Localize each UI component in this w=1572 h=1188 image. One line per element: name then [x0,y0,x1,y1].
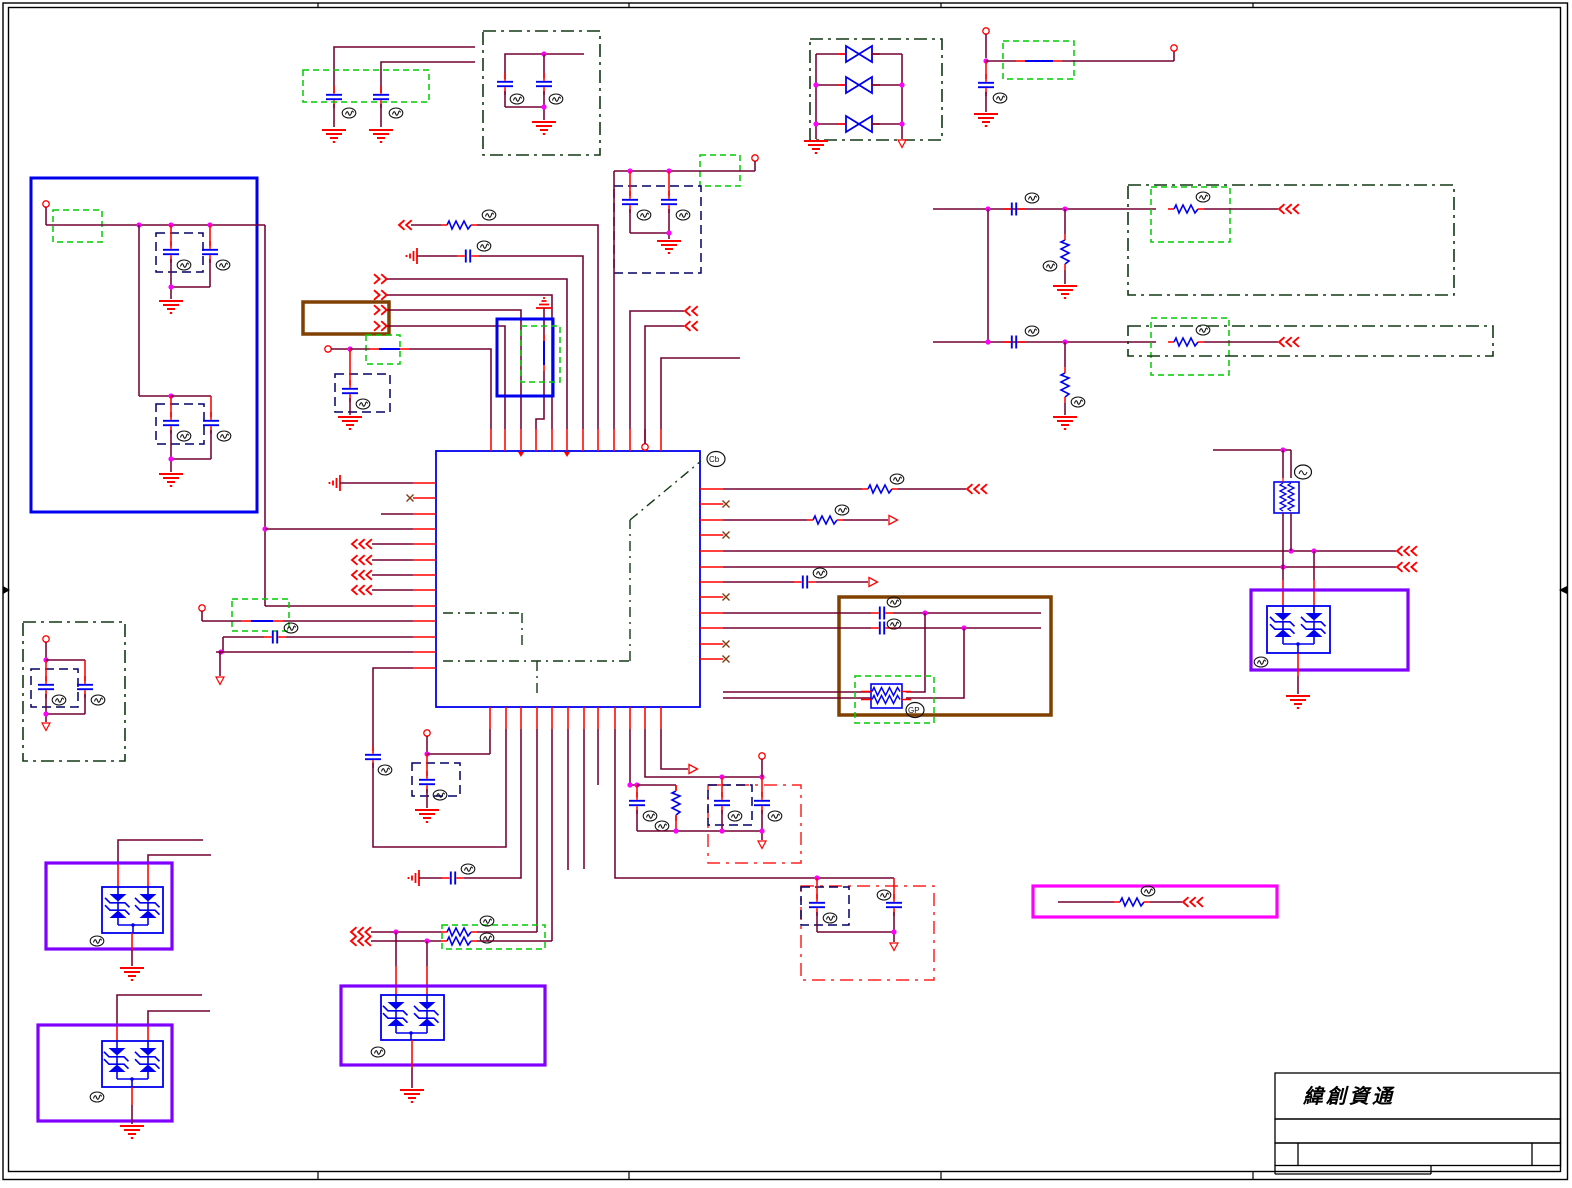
wire [373,668,413,751]
label U2 [1254,657,1268,667]
diode D1 (bidirectional) [816,46,902,62]
no-connect [407,495,414,502]
label C27 [813,568,827,578]
port symbol [409,870,420,886]
node [168,393,173,398]
node [1062,339,1067,344]
decoupling box (navy dashed) [156,404,204,444]
wire [637,831,762,840]
wire [597,729,599,785]
node [985,206,990,211]
node [983,58,988,63]
no-connect [723,594,730,601]
label Cb [707,452,725,467]
ESD group box (purple) [341,986,545,1065]
label U4 [90,1092,104,1102]
resistor R10 [441,937,477,945]
wire [1058,901,1114,903]
wire [893,627,1041,629]
wire with bead [536,308,544,429]
net box (green dashed) [366,335,400,364]
power arrow [898,140,906,148]
wire [131,1087,133,1124]
label R9 [480,916,494,926]
wire [373,729,506,847]
open arrow [689,765,698,774]
wire [387,279,567,429]
wire [723,627,871,629]
wire [477,931,537,933]
net box (green dashed) [1003,41,1074,79]
net box (green dashed) [53,210,102,242]
pin [43,201,49,225]
capacitor C17 [342,349,358,415]
wire [1204,341,1278,343]
ESD group box (purple) [46,863,172,949]
wire [334,47,475,93]
connector arrows [351,936,371,946]
wire [1150,901,1182,903]
decoupling box (navy dashed) [335,374,390,412]
IC section boundary (dash-dot) [443,461,701,698]
wire with bead [202,620,413,622]
wire (bus) [723,550,1396,552]
U1 bottom pins [490,707,661,729]
ESD array U5 [381,995,444,1040]
wire [536,729,538,932]
node [541,104,546,109]
capacitor C16 [457,250,479,263]
ground [369,130,393,142]
node [136,222,212,227]
node [218,649,223,654]
diode D2 (bidirectional) [816,77,902,93]
label R8 [835,505,849,515]
wire [371,940,441,942]
label C7 [676,210,690,220]
label C25 [728,811,742,821]
capacitor C13 [171,396,219,459]
fuse F1 [1274,482,1299,513]
wire [1297,653,1299,694]
net box (green dashed) [232,599,289,631]
clock pin marks [518,452,570,457]
wire [723,697,871,699]
label C28 [887,597,901,607]
connector arrows [685,321,698,331]
wire [614,170,755,172]
wire [637,784,676,786]
power arrow [758,841,766,849]
label C24 [643,811,657,821]
wire [933,341,1156,343]
wire [387,326,505,429]
decoupling box (navy dashed) [708,785,752,825]
wire [139,225,171,396]
ESD array U4 [102,1041,163,1087]
label C4 [549,94,563,104]
wire (bus to U1 pin) [613,171,615,429]
wire [372,559,413,561]
wire with bead [350,349,491,429]
wire [630,729,637,785]
wire [906,628,964,698]
suppressor group box (dash-dot) [810,39,942,140]
wire [387,295,552,429]
connector arrows [967,484,987,494]
node [1280,564,1285,569]
net box (green dashed) [1151,187,1230,242]
pin [199,605,205,621]
power arrow [216,677,224,685]
node [43,711,48,716]
diode D3 (bidirectional) [816,116,902,132]
wire [417,255,457,257]
capacitor C9 [1003,336,1025,349]
decoupling box (navy dashed) [156,233,203,272]
label C22 [823,913,837,923]
open arrow [889,516,898,525]
label C23 [877,890,891,900]
wire [551,729,553,941]
resistor R6 [672,785,680,831]
label C20 [433,790,447,800]
wire [723,488,862,490]
node [424,938,429,943]
node [673,828,764,833]
red group box (dash-dot) [708,785,801,863]
capacitor C19 (series) [365,746,381,768]
wire [148,855,211,887]
wire [265,528,413,530]
label R7 [890,474,904,484]
wire [131,933,133,966]
ground [657,241,681,253]
group box (dash-dot) [23,622,125,761]
capacitor C15 [46,660,93,714]
node [1280,447,1285,452]
capacitor C26 [754,777,770,831]
resistor R8 [807,516,843,524]
port symbol [407,248,418,264]
capacitor C6 [622,171,638,233]
no-connect [723,641,730,648]
node [43,657,48,662]
group box (blue) [31,178,257,512]
label C29 [887,619,901,629]
label C9 [1025,326,1039,336]
group box (brown) [303,302,389,334]
capacitor C7 [661,171,677,233]
connector arrows [374,305,387,315]
ESD array U3 [102,887,163,933]
wire [1204,208,1278,210]
connector arrows [352,570,372,580]
resistor R9 [441,928,477,936]
label C14 [52,695,66,705]
node [891,929,896,934]
capacitor C14 [38,660,54,714]
net box (green dashed) [1151,318,1229,375]
capacitor C5 [978,61,994,112]
wire [387,310,521,429]
label R4 [1196,325,1210,335]
wire [645,729,762,777]
connector arrows [352,555,372,565]
ground [1286,696,1310,708]
capacitor C4 [536,54,552,107]
capacitor C3 [497,73,513,107]
wire [505,107,544,120]
pin [752,155,758,171]
power arrow [890,943,898,951]
label C21 [461,864,475,874]
label C19 [378,765,392,775]
ESD array U2 [1267,606,1330,653]
wire [816,581,868,583]
pin [1171,45,1177,51]
group box 2 (dash-dot) [1128,326,1493,356]
ground [804,141,828,153]
U1 top pins [491,429,661,451]
capacitor C12 [163,396,179,459]
node [961,625,966,630]
decoupling box (navy dashed) [412,763,460,796]
capacitor C29 [871,622,893,635]
ground [120,968,144,980]
ESD group box (purple) [38,1025,172,1121]
wire [265,605,413,607]
label R3 [1071,397,1085,407]
voltage box (green dashed) [303,70,429,102]
label C15 [91,695,105,705]
decoupling box (navy dashed) [801,887,849,925]
node [541,51,546,56]
wire [505,54,584,79]
wire [381,62,475,93]
wire [148,1011,210,1041]
decoupling box (navy dashed) [31,669,78,707]
title text 緯創資通 [1302,1085,1395,1108]
wire [372,543,413,545]
pin [759,753,765,777]
pin [983,28,989,58]
capacitor C10 [163,225,179,287]
wire [411,1040,413,1088]
wire [630,311,684,429]
wire [171,459,211,472]
wire (bus) [723,566,1396,568]
connector arrows [374,290,387,300]
wire [419,877,442,879]
wire [1213,449,1291,451]
wire [340,482,413,484]
wire [661,358,740,429]
ground [1053,417,1077,429]
wire [381,513,413,515]
wire [117,995,202,1041]
ESD group box (purple) [1251,590,1408,670]
pin (inverted) [642,444,648,450]
capacitor C8 [1003,203,1025,216]
node [814,875,819,880]
connector arrows [1397,546,1417,556]
capacitor C2 [373,86,389,127]
ground [322,130,346,142]
port symbol [536,298,552,308]
wire [372,574,413,576]
connector arrows [1279,337,1299,347]
node [347,346,352,351]
wire [630,233,669,239]
group box (brown) [839,597,1051,715]
ground [974,114,998,126]
group box (dash-dot) [483,31,600,155]
wire [479,256,583,429]
wire [1313,551,1315,612]
ground [120,1126,144,1138]
node [1062,206,1067,211]
wire [464,729,521,878]
resistor R2 [1168,205,1204,213]
wire [395,932,397,995]
label C8 [1025,193,1039,203]
label C26 [768,811,782,821]
wire [171,287,210,299]
svg-text:GP: GP [908,706,920,715]
wire [898,488,966,490]
wire [216,652,413,676]
connector arrows [374,321,387,331]
wire [426,941,428,995]
pin [325,346,350,352]
ground [1053,286,1077,298]
net box (green dashed) [855,676,934,723]
svg-text:Cb: Cb [709,455,720,464]
wire [1282,567,1284,612]
wire [893,612,1041,614]
label C5 [993,93,1007,103]
capacitor C20 [419,754,435,808]
wire [843,519,888,521]
node [627,168,671,173]
pin [43,636,49,660]
title block [1275,1073,1561,1174]
wire [118,840,203,887]
node [922,610,927,615]
wire [723,581,794,583]
capacitor C27 [794,576,816,589]
wire [817,932,894,942]
connector arrows [1183,897,1203,907]
capacitor C22 [809,878,825,932]
wire [286,636,413,638]
node [168,284,173,289]
connector arrows [685,306,698,316]
label C10 [177,260,191,270]
wire [427,729,490,754]
net box (green dashed) [442,925,545,949]
svg-text:緯創資通: 緯創資通 [1302,1085,1395,1108]
capacitor C1 [326,86,342,127]
label C3 [510,94,524,104]
wire [477,940,552,942]
label C1 [342,108,356,118]
wire [372,589,413,591]
wire [723,612,871,614]
connector arrows [1397,562,1417,572]
label C17 [356,399,370,409]
resistor R7 [862,485,898,493]
capacitor C24 [629,785,645,831]
capacitor C28 [871,607,893,620]
capacitor C23 [886,878,902,932]
node [985,339,990,344]
wire [223,636,264,638]
wire [645,326,684,444]
group box small (blue) [497,319,553,396]
capacitor C25 [714,777,730,831]
node [719,774,764,779]
resistor R11 [1114,898,1150,906]
label U5 [371,1047,385,1057]
wire [46,714,85,722]
connector arrows [374,274,387,284]
resistor R5 [411,221,482,229]
power arrow [42,723,50,731]
no-connect [723,501,730,508]
node [666,230,671,235]
wire [987,209,989,342]
group box 1 (dash-dot) [1128,185,1454,295]
label C12 [177,431,191,441]
net box (green dashed) [700,155,740,186]
node [627,782,639,787]
resistor pack RP1 [861,684,911,708]
wire [1283,478,1291,567]
label C11 [216,260,230,270]
node [262,526,267,531]
resistor R3 [1061,342,1069,415]
wire [615,729,894,878]
label GP [906,703,924,718]
ground [400,1090,424,1102]
label R5 [482,210,496,220]
pin [424,730,430,754]
wire [816,54,902,139]
connector arrows [352,585,372,595]
label U3 [90,936,104,946]
resistor R4 [1168,338,1204,346]
wire [482,225,598,429]
label R1 [1043,261,1057,271]
wire with bead [986,51,1174,61]
node [168,456,173,461]
connector arrows [351,927,371,937]
node [813,82,904,126]
wire [46,224,265,226]
label C6 [637,210,651,220]
wire (bus) [264,225,266,606]
wire [583,729,585,869]
label R11 [1141,886,1155,896]
IC U1 [436,451,700,707]
ground [159,474,183,486]
ground [159,301,183,313]
decoupling box (navy dashed) [614,186,701,273]
ground [338,417,362,429]
capacitor C18 [264,631,286,644]
